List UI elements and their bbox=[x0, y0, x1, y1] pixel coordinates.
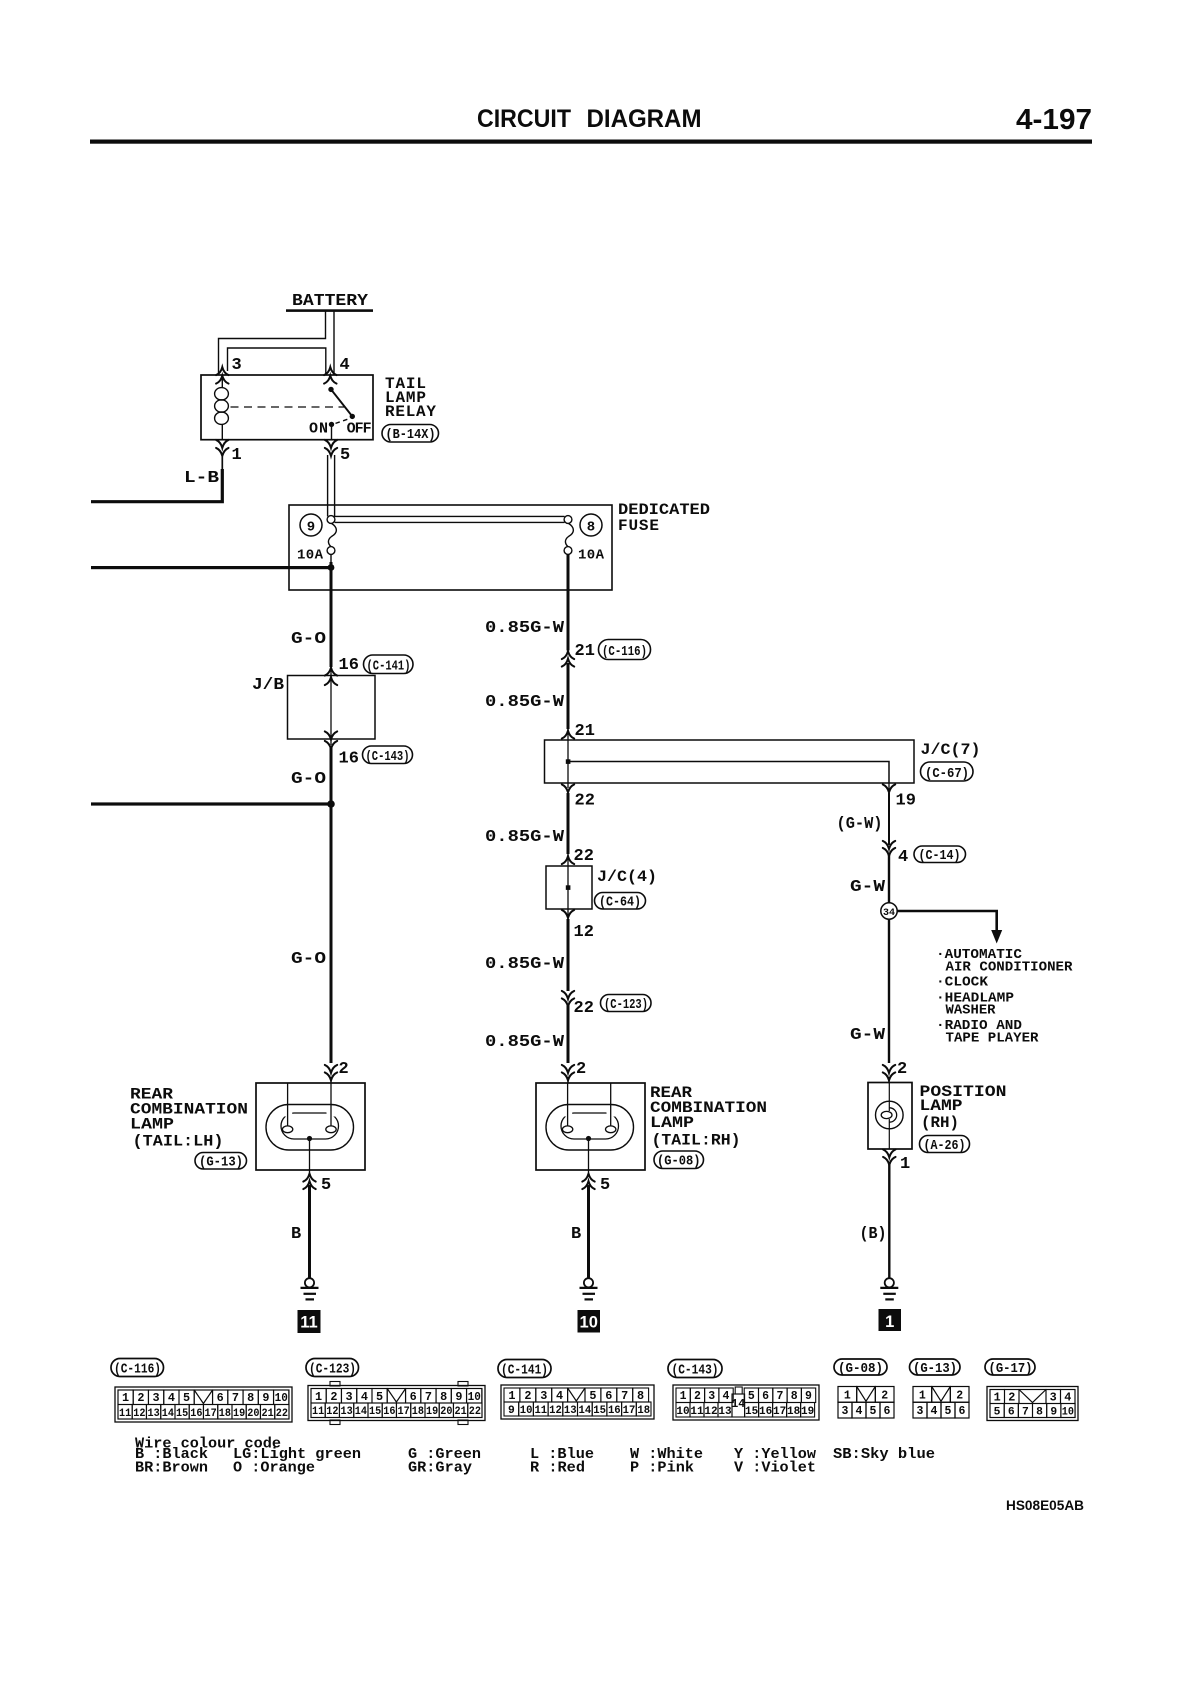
svg-text:O :Orange: O :Orange bbox=[233, 1460, 315, 1477]
connector G-13 pinout bbox=[913, 1387, 969, 1419]
svg-text:G-O: G-O bbox=[291, 630, 326, 649]
svg-text:10A: 10A bbox=[578, 548, 605, 564]
svg-text:5: 5 bbox=[748, 1390, 755, 1403]
connector 16 C-141 bbox=[325, 668, 337, 676]
connector pin 5 middle lamp bbox=[582, 1174, 594, 1182]
svg-text:7: 7 bbox=[425, 1391, 432, 1404]
connector tag C-123 bbox=[306, 1359, 359, 1378]
svg-text:10: 10 bbox=[275, 1392, 288, 1405]
relay box bbox=[201, 375, 373, 440]
svg-text:6: 6 bbox=[1008, 1407, 1015, 1419]
connector 22 C-123 bbox=[562, 991, 574, 999]
svg-text:G-W: G-W bbox=[850, 878, 886, 897]
svg-text:14: 14 bbox=[162, 1408, 175, 1420]
svg-text:19: 19 bbox=[801, 1406, 814, 1418]
svg-text:15: 15 bbox=[369, 1406, 382, 1418]
J/C4 junction bbox=[566, 885, 571, 890]
J/C(7) connector tag C-67 bbox=[921, 762, 974, 782]
svg-text:(C-141): (C-141) bbox=[367, 659, 411, 674]
svg-text:L-B: L-B bbox=[184, 469, 219, 488]
svg-text:1: 1 bbox=[122, 1392, 129, 1405]
connector 21 C-116 bbox=[562, 651, 574, 659]
svg-text:16: 16 bbox=[608, 1405, 621, 1417]
connector pin 21 J/C7 bbox=[562, 731, 574, 739]
svg-text:22: 22 bbox=[574, 999, 594, 1018]
svg-text:(G-13): (G-13) bbox=[913, 1362, 957, 1377]
svg-text:(C-116): (C-116) bbox=[114, 1363, 161, 1378]
connector C-143 pinout bbox=[673, 1385, 819, 1420]
svg-text:0.85G-W: 0.85G-W bbox=[485, 1033, 565, 1052]
svg-text:OFF: OFF bbox=[347, 421, 372, 438]
svg-text:2: 2 bbox=[1008, 1392, 1015, 1405]
svg-text:21: 21 bbox=[575, 642, 595, 661]
svg-text:0.85G-W: 0.85G-W bbox=[485, 619, 565, 638]
svg-text:19: 19 bbox=[233, 1408, 245, 1420]
connector pin 22 J/C7 bbox=[562, 784, 574, 792]
branch to accessories bbox=[897, 911, 997, 931]
bulb filament bbox=[881, 1111, 892, 1118]
connector tag G-08 bbox=[654, 1151, 704, 1170]
svg-text:12: 12 bbox=[704, 1406, 717, 1418]
svg-text:12: 12 bbox=[326, 1406, 338, 1418]
svg-text:LAMP: LAMP bbox=[130, 1116, 174, 1134]
J/C(7) box bbox=[545, 740, 915, 783]
svg-text:17: 17 bbox=[623, 1405, 636, 1417]
svg-text:(B-14X): (B-14X) bbox=[386, 428, 436, 443]
svg-text:11: 11 bbox=[119, 1408, 132, 1420]
svg-text:21: 21 bbox=[455, 1406, 468, 1418]
connector pin 12 J/C4 bbox=[562, 910, 574, 918]
svg-text:9: 9 bbox=[1050, 1407, 1057, 1419]
relay pin 1 bbox=[216, 440, 228, 448]
svg-text:1: 1 bbox=[232, 446, 242, 465]
svg-text:DIAGRAM: DIAGRAM bbox=[587, 105, 702, 133]
wire G-W node to lamp bbox=[888, 919, 890, 1063]
svg-text:13: 13 bbox=[718, 1406, 732, 1418]
bulb common node bbox=[586, 1136, 591, 1141]
svg-text:FUSE: FUSE bbox=[618, 517, 659, 535]
ground left lamp bbox=[301, 1278, 319, 1299]
fuse number 8 bbox=[580, 514, 602, 536]
svg-text:9: 9 bbox=[262, 1392, 269, 1405]
svg-text:16: 16 bbox=[759, 1406, 772, 1418]
J/C7 internal bus bbox=[566, 759, 571, 764]
wire 0.85G-W segment 2 bbox=[567, 663, 570, 729]
svg-text:22: 22 bbox=[574, 847, 594, 866]
svg-text:SB:Sky blue: SB:Sky blue bbox=[833, 1446, 935, 1463]
ground tag 11 bbox=[298, 1310, 321, 1333]
svg-text:5: 5 bbox=[340, 446, 350, 465]
svg-text:7: 7 bbox=[776, 1390, 783, 1403]
svg-text:(C-64): (C-64) bbox=[599, 896, 641, 911]
svg-text:10: 10 bbox=[468, 1391, 481, 1404]
svg-text:1: 1 bbox=[885, 1313, 894, 1331]
svg-text:3: 3 bbox=[540, 1390, 547, 1403]
svg-text:2: 2 bbox=[694, 1390, 701, 1403]
svg-text:1: 1 bbox=[900, 1155, 910, 1174]
ground position lamp bbox=[880, 1278, 898, 1299]
svg-text:0.85G-W: 0.85G-W bbox=[485, 693, 565, 712]
relay switch bbox=[328, 387, 333, 392]
relay coil bbox=[215, 375, 229, 440]
svg-text:5: 5 bbox=[589, 1390, 596, 1403]
connector pin 19 J/C7 bbox=[883, 784, 895, 792]
wire G-O fuse9 down bbox=[330, 562, 333, 667]
connector tag C-141 bbox=[498, 1360, 551, 1379]
svg-text:·CLOCK: ·CLOCK bbox=[936, 975, 989, 991]
svg-text:(G-13): (G-13) bbox=[199, 1156, 243, 1171]
connector tag C-116 bbox=[111, 1359, 164, 1378]
svg-text:16: 16 bbox=[339, 656, 359, 675]
bulb stubs bbox=[888, 1083, 890, 1112]
svg-text:5: 5 bbox=[600, 1176, 610, 1195]
DEDICATED FUSE box bbox=[289, 505, 612, 590]
connector pin 2 left lamp bbox=[325, 1065, 337, 1073]
svg-text:5: 5 bbox=[321, 1176, 331, 1195]
connector G-17 pinout bbox=[987, 1387, 1078, 1421]
svg-text:15: 15 bbox=[745, 1406, 759, 1418]
wire B left bbox=[308, 1185, 311, 1278]
lamp box G-13 bbox=[256, 1083, 365, 1170]
lamp box G-08 bbox=[536, 1083, 645, 1170]
svg-text:5: 5 bbox=[376, 1391, 383, 1404]
svg-text:5: 5 bbox=[945, 1405, 952, 1418]
connector tag G-13 bbox=[195, 1153, 247, 1171]
svg-text:11: 11 bbox=[300, 1314, 317, 1332]
ground middle lamp bbox=[580, 1278, 598, 1299]
svg-text:GR:Gray: GR:Gray bbox=[408, 1460, 472, 1477]
bulb outer bbox=[266, 1105, 354, 1151]
svg-text:B: B bbox=[571, 1225, 581, 1244]
svg-text:13: 13 bbox=[341, 1406, 354, 1418]
svg-text:(TAIL:RH): (TAIL:RH) bbox=[652, 1132, 741, 1150]
svg-text:10A: 10A bbox=[297, 548, 324, 564]
svg-text:3: 3 bbox=[842, 1405, 849, 1418]
ground tag 1 bbox=[879, 1309, 902, 1331]
connector 16 C-143 bbox=[325, 731, 337, 739]
relay pin 5 bbox=[325, 440, 337, 448]
wire thick branch left bbox=[91, 802, 331, 805]
relay pin 4 bbox=[324, 367, 336, 375]
connector tag C-143 bbox=[668, 1360, 722, 1379]
svg-text:TAPE PLAYER: TAPE PLAYER bbox=[946, 1031, 1040, 1047]
J/B box bbox=[288, 676, 376, 740]
svg-text:11: 11 bbox=[312, 1406, 325, 1418]
svg-text:G-O: G-O bbox=[291, 950, 326, 969]
wire G-O down to lamp bbox=[330, 748, 333, 1063]
svg-text:15: 15 bbox=[593, 1405, 606, 1417]
svg-text:BR:Brown: BR:Brown bbox=[135, 1460, 208, 1477]
svg-text:10: 10 bbox=[1062, 1407, 1074, 1419]
svg-text:(C-116): (C-116) bbox=[602, 645, 647, 660]
bulb contacts bbox=[282, 1126, 292, 1133]
svg-text:3: 3 bbox=[1050, 1392, 1057, 1405]
svg-text:AIR CONDITIONER: AIR CONDITIONER bbox=[946, 960, 1074, 976]
svg-text:2: 2 bbox=[881, 1389, 888, 1402]
connector C-116 pinout bbox=[115, 1387, 292, 1422]
svg-text:RELAY: RELAY bbox=[385, 403, 436, 421]
svg-text:8: 8 bbox=[1036, 1407, 1043, 1419]
svg-text:7: 7 bbox=[1022, 1407, 1029, 1419]
wire 0.85G-W segment 3 bbox=[567, 793, 570, 854]
fuse 8 element bbox=[564, 516, 573, 555]
svg-text:4: 4 bbox=[361, 1391, 368, 1404]
svg-text:11: 11 bbox=[534, 1405, 547, 1417]
svg-text:13: 13 bbox=[148, 1408, 161, 1420]
junction fuse 9 output bbox=[330, 554, 332, 562]
connector tag A-26 bbox=[920, 1136, 970, 1155]
svg-text:15: 15 bbox=[176, 1408, 189, 1420]
svg-text:4: 4 bbox=[556, 1390, 563, 1403]
svg-text:6: 6 bbox=[217, 1392, 224, 1405]
svg-text:ON: ON bbox=[309, 421, 328, 438]
connector G-08 pinout bbox=[838, 1387, 894, 1419]
wire B middle bbox=[587, 1185, 590, 1278]
svg-text:5: 5 bbox=[994, 1407, 1001, 1419]
svg-text:10: 10 bbox=[520, 1405, 533, 1417]
svg-text:3: 3 bbox=[917, 1405, 924, 1418]
svg-text:8: 8 bbox=[587, 520, 595, 536]
svg-text:(G-W): (G-W) bbox=[837, 815, 883, 834]
svg-text:4: 4 bbox=[168, 1392, 175, 1405]
connector tag G-13 bbox=[910, 1359, 961, 1377]
svg-text:16: 16 bbox=[339, 750, 359, 769]
relay dashed link bbox=[231, 406, 345, 408]
svg-text:1: 1 bbox=[919, 1389, 926, 1402]
svg-text:(C-143): (C-143) bbox=[672, 1364, 719, 1379]
svg-text:3: 3 bbox=[232, 356, 242, 375]
svg-text:1: 1 bbox=[844, 1389, 851, 1402]
svg-text:3: 3 bbox=[153, 1392, 160, 1405]
svg-text:(TAIL:LH): (TAIL:LH) bbox=[133, 1133, 224, 1151]
connector pin 5 left lamp bbox=[303, 1174, 315, 1182]
bulb stubs bbox=[287, 1083, 289, 1127]
bulb circle bbox=[876, 1101, 904, 1129]
svg-text:J/C(4): J/C(4) bbox=[597, 868, 657, 886]
svg-text:7: 7 bbox=[232, 1392, 239, 1405]
J/C(4) box bbox=[546, 866, 592, 909]
connector C-123 pinout bbox=[330, 1382, 468, 1425]
svg-text:CIRCUIT: CIRCUIT bbox=[477, 105, 571, 133]
svg-text:(B): (B) bbox=[860, 1225, 887, 1244]
svg-text:9: 9 bbox=[805, 1390, 812, 1403]
svg-text:0.85G-W: 0.85G-W bbox=[485, 828, 565, 847]
svg-text:6: 6 bbox=[762, 1390, 769, 1403]
svg-text:14: 14 bbox=[355, 1406, 368, 1418]
lamp box A-26 bbox=[868, 1083, 912, 1150]
svg-text:2: 2 bbox=[897, 1060, 907, 1079]
svg-text:20: 20 bbox=[440, 1406, 452, 1418]
svg-text:J/C(7): J/C(7) bbox=[921, 741, 981, 759]
svg-text:(C-14): (C-14) bbox=[919, 849, 961, 864]
connector C-141 pinout bbox=[501, 1385, 654, 1419]
svg-text:2: 2 bbox=[956, 1389, 963, 1402]
svg-text:4: 4 bbox=[898, 848, 908, 867]
connector pin 1 position lamp bbox=[883, 1149, 895, 1157]
node 34 bbox=[881, 903, 897, 919]
bulb outer bbox=[546, 1105, 634, 1151]
connector tag G-08 bbox=[834, 1359, 887, 1377]
svg-text:6: 6 bbox=[410, 1391, 417, 1404]
svg-text:10: 10 bbox=[676, 1406, 689, 1418]
svg-text:2: 2 bbox=[330, 1391, 337, 1404]
svg-text:G-W: G-W bbox=[850, 1026, 886, 1045]
svg-text:22: 22 bbox=[469, 1406, 481, 1418]
svg-text:10: 10 bbox=[580, 1314, 598, 1332]
svg-text:12: 12 bbox=[133, 1408, 145, 1420]
wire 0.85G-W segment 4 bbox=[567, 919, 570, 991]
svg-text:4-197: 4-197 bbox=[1016, 104, 1092, 136]
svg-text:17: 17 bbox=[398, 1406, 410, 1418]
bulb inner bbox=[561, 1113, 619, 1139]
svg-text:6: 6 bbox=[605, 1390, 612, 1403]
svg-text:3: 3 bbox=[346, 1391, 353, 1404]
svg-text:13: 13 bbox=[564, 1405, 577, 1417]
svg-text:G-O: G-O bbox=[291, 770, 326, 789]
svg-text:WASHER: WASHER bbox=[946, 1003, 997, 1019]
svg-text:22: 22 bbox=[276, 1408, 288, 1420]
svg-text:8: 8 bbox=[791, 1390, 798, 1403]
wire through J/C4 bbox=[567, 854, 569, 919]
svg-text:34: 34 bbox=[883, 907, 895, 919]
svg-text:8: 8 bbox=[440, 1391, 447, 1404]
wire through J/B bbox=[330, 666, 332, 745]
svg-text:16: 16 bbox=[190, 1408, 202, 1420]
svg-text:17: 17 bbox=[773, 1406, 786, 1418]
svg-text:20: 20 bbox=[247, 1408, 259, 1420]
svg-text:12: 12 bbox=[549, 1405, 562, 1417]
svg-text:(G-17): (G-17) bbox=[989, 1362, 1033, 1377]
svg-text:11: 11 bbox=[690, 1406, 704, 1418]
svg-text:8: 8 bbox=[247, 1392, 254, 1405]
wire B right bbox=[888, 1162, 890, 1278]
svg-text:J/B: J/B bbox=[252, 676, 284, 695]
wire L-B from relay pin1 bbox=[221, 457, 223, 471]
svg-text:7: 7 bbox=[621, 1390, 628, 1403]
header rule bbox=[90, 140, 1092, 144]
svg-text:18: 18 bbox=[219, 1408, 232, 1420]
svg-text:9: 9 bbox=[508, 1405, 515, 1417]
wire through J/C7 bbox=[567, 729, 569, 788]
svg-text:5: 5 bbox=[870, 1405, 877, 1418]
svg-text:1: 1 bbox=[315, 1391, 322, 1404]
svg-text:1: 1 bbox=[994, 1392, 1001, 1405]
svg-text:3: 3 bbox=[708, 1390, 715, 1403]
svg-text:HS08E05AB: HS08E05AB bbox=[1006, 1498, 1084, 1513]
svg-text:21: 21 bbox=[262, 1408, 275, 1420]
svg-text:LAMP: LAMP bbox=[650, 1114, 694, 1132]
svg-text:5: 5 bbox=[183, 1392, 190, 1405]
svg-text:18: 18 bbox=[412, 1406, 425, 1418]
svg-text:V :Violet: V :Violet bbox=[734, 1460, 816, 1477]
connector pin 2 position lamp bbox=[883, 1065, 895, 1073]
svg-text:(G-08): (G-08) bbox=[838, 1362, 883, 1377]
svg-text:(A-26): (A-26) bbox=[924, 1139, 966, 1154]
svg-text:12: 12 bbox=[574, 923, 594, 942]
wire G-W to node34 bbox=[888, 855, 890, 903]
bulb stubs bbox=[567, 1083, 569, 1127]
fuse number 9 bbox=[300, 514, 322, 536]
svg-text:(RH): (RH) bbox=[921, 1114, 959, 1132]
svg-text:4: 4 bbox=[1064, 1392, 1071, 1405]
svg-text:18: 18 bbox=[787, 1406, 801, 1418]
svg-text:R :Red: R :Red bbox=[530, 1460, 585, 1477]
wire G-W pin19 down bbox=[888, 793, 890, 845]
svg-text:LAMP: LAMP bbox=[920, 1097, 963, 1115]
svg-text:0.85G-W: 0.85G-W bbox=[485, 955, 565, 974]
connector pin 2 middle lamp bbox=[562, 1065, 574, 1073]
junction G-O branch bbox=[327, 800, 335, 808]
svg-text:6: 6 bbox=[959, 1405, 966, 1418]
bulb contacts bbox=[562, 1126, 572, 1133]
svg-text:1: 1 bbox=[680, 1390, 687, 1403]
relay pin 3 bbox=[216, 367, 228, 375]
svg-text:(C-123): (C-123) bbox=[309, 1363, 356, 1378]
svg-text:(C-67): (C-67) bbox=[925, 767, 969, 782]
svg-text:1: 1 bbox=[508, 1390, 515, 1403]
svg-text:BATTERY: BATTERY bbox=[292, 292, 369, 311]
svg-text:9: 9 bbox=[307, 520, 315, 536]
svg-text:B: B bbox=[291, 1225, 301, 1244]
svg-text:2: 2 bbox=[576, 1060, 586, 1079]
svg-text:2: 2 bbox=[137, 1392, 144, 1405]
svg-text:2: 2 bbox=[339, 1060, 349, 1079]
svg-text:2: 2 bbox=[524, 1390, 531, 1403]
connector tag G-17 bbox=[985, 1359, 1035, 1377]
battery bus bar bbox=[286, 309, 373, 312]
svg-text:8: 8 bbox=[637, 1390, 644, 1403]
relay connector tag B-14X bbox=[382, 425, 439, 444]
wire thick feed to fuse 9 bbox=[91, 566, 331, 569]
svg-text:4: 4 bbox=[340, 356, 350, 375]
svg-text:16: 16 bbox=[383, 1406, 395, 1418]
wire G-W fuse8 down bbox=[567, 554, 570, 650]
svg-text:17: 17 bbox=[205, 1408, 217, 1420]
connector C-123x pinout bbox=[308, 1386, 485, 1421]
svg-text:P :Pink: P :Pink bbox=[630, 1460, 694, 1477]
svg-text:(C-141): (C-141) bbox=[501, 1364, 548, 1379]
svg-text:6: 6 bbox=[884, 1405, 891, 1418]
svg-text:21: 21 bbox=[575, 722, 595, 741]
wire double link to fuse 8 bbox=[331, 516, 565, 522]
svg-text:22: 22 bbox=[575, 792, 595, 811]
relay switch wire to pin5 bbox=[331, 424, 333, 440]
ground tag 10 bbox=[578, 1310, 601, 1333]
svg-text:9: 9 bbox=[455, 1391, 462, 1404]
wire 0.85G-W segment 5 bbox=[567, 1004, 570, 1063]
bulb inner bbox=[281, 1113, 339, 1139]
svg-text:18: 18 bbox=[637, 1405, 650, 1417]
connector pin 22 J/C4 bbox=[562, 856, 574, 864]
svg-text:4: 4 bbox=[723, 1390, 730, 1403]
bulb common node bbox=[307, 1136, 312, 1141]
connector 4 C-14 bbox=[883, 841, 895, 849]
WIRE COLOUR CODE LEGEND bbox=[135, 1436, 935, 1477]
svg-text:(G-08): (G-08) bbox=[657, 1155, 701, 1170]
svg-text:(C-143): (C-143) bbox=[366, 750, 410, 765]
svg-text:(C-123): (C-123) bbox=[604, 998, 648, 1013]
fuse 9 element bbox=[327, 516, 336, 555]
wire relay pin5 to fuse (double) bbox=[328, 455, 335, 516]
svg-text:14: 14 bbox=[731, 1398, 745, 1411]
svg-text:14: 14 bbox=[579, 1405, 592, 1417]
svg-text:19: 19 bbox=[896, 792, 916, 811]
accessory list bbox=[936, 947, 1073, 1047]
svg-text:4: 4 bbox=[856, 1405, 863, 1418]
wire battery double feed bbox=[219, 312, 335, 376]
svg-text:19: 19 bbox=[426, 1406, 438, 1418]
svg-text:4: 4 bbox=[931, 1405, 938, 1418]
